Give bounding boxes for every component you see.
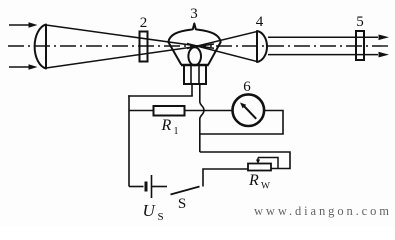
- collimated beam top: [268, 36, 378, 38]
- rheostat RW: [248, 158, 278, 171]
- svg-text:5: 5: [356, 14, 364, 30]
- aperture 2: [140, 32, 148, 62]
- lamp socket: [181, 65, 209, 84]
- resistor R1: [154, 106, 185, 116]
- outgoing arrow bottom: [379, 52, 390, 58]
- wire: left rail vertical: [128, 95, 130, 186]
- svg-text:3: 3: [190, 6, 198, 22]
- svg-text:4: 4: [256, 14, 264, 30]
- incoming ray arrow bottom: [9, 64, 38, 70]
- svg-text:6: 6: [243, 79, 251, 95]
- wire: R1 branch left: [129, 110, 154, 112]
- wire: switch riser to rheostat left: [203, 169, 248, 187]
- diverging ray bottom (focus to lens4): [187, 44, 257, 62]
- wire: R1 to meter: [185, 110, 233, 112]
- converging ray bottom (lens1 to focus): [46, 44, 214, 68]
- lamp bulb: [188, 47, 201, 65]
- svg-text:R: R: [161, 117, 172, 134]
- wire: lamp right terminal vertical with crossover hop: [200, 84, 204, 152]
- optical axis (dash-dot centerline): [8, 45, 392, 47]
- converging ray top (lens1 to focus): [46, 25, 214, 48]
- lens 4 (collimating, plano-convex): [257, 31, 267, 62]
- svg-text:W: W: [261, 182, 270, 192]
- wire: lamp left terminal down: [191, 84, 193, 96]
- filter 5: [356, 31, 364, 60]
- diverging ray top (focus to lens4): [187, 32, 257, 49]
- svg-text:2: 2: [140, 15, 148, 31]
- svg-text:U: U: [143, 201, 157, 220]
- svg-text:S: S: [158, 211, 164, 223]
- wire: top horizontal to left rail: [128, 95, 193, 97]
- lens 1 (condenser, plano-convex): [35, 25, 46, 69]
- lamp housing 3: [168, 24, 220, 65]
- collimated beam bottom: [268, 54, 378, 56]
- wire: to rheostat frame right: [200, 152, 290, 169]
- meter 6 (galvanometer): [233, 94, 265, 126]
- incoming ray arrow top: [9, 22, 38, 28]
- wire: meter right: [200, 111, 283, 135]
- switch S blade: [171, 187, 200, 195]
- svg-text:R: R: [248, 172, 259, 189]
- battery US: [129, 175, 167, 198]
- svg-text:1: 1: [174, 126, 179, 137]
- outgoing arrow top: [379, 35, 390, 41]
- svg-text:S: S: [178, 196, 186, 212]
